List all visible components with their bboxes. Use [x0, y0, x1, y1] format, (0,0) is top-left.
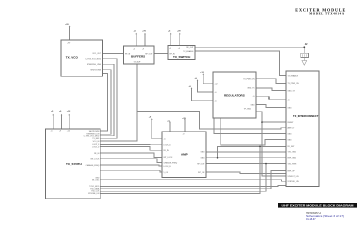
wire REGULATORS pin4 to TX_INTERCONNECT GND	[256, 105, 286, 108]
svg-text:BUFFERS: BUFFERS	[131, 55, 145, 59]
wire TX_SWITCH RF_OUT to connector J2	[195, 47, 304, 53]
wire REGULATORS pin1 to TX_INTERCONNECT TX_PWR_ON	[256, 79, 286, 84]
power tap +5V above AMP	[169, 122, 171, 132]
wire REGULATORS pin5 to TX_INTERCONNECT RESET	[256, 112, 286, 176]
svg-text:+9: +9	[142, 48, 144, 50]
svg-text:AMP_LT: AMP_LT	[288, 127, 296, 130]
power arrowheads on taps	[52, 26, 204, 123]
wire REGULATORS pin3 to TX_INTERCONNECT +5	[256, 96, 286, 100]
block TX_INTERCONNECT	[286, 71, 319, 187]
bus wire TX_SYNTH TXD_DATA	[100, 171, 286, 189]
wire TX_VCO VCO_OUT to BUFFERS RF_IN	[103, 52, 124, 54]
junction dot at J2	[303, 46, 305, 48]
svg-text:GND: GND	[201, 158, 206, 160]
svg-text:SHUTDOWN: SHUTDOWN	[90, 70, 101, 72]
svg-text:CHANGE_FREQ: CHANGE_FREQ	[164, 161, 178, 164]
power stub tap3 at REGULATORS left	[192, 89, 214, 101]
wire branch AMP GND up	[218, 146, 287, 157]
svg-text:TX_ENABLE: TX_ENABLE	[288, 74, 299, 77]
svg-text:GND: GND	[251, 104, 256, 106]
svg-text:GND: GND	[288, 139, 293, 141]
connector J2 arrow shaft	[303, 58, 305, 61]
svg-text:LOCK_B: LOCK_B	[164, 166, 172, 168]
bus wire TX_SYNTH STROBE_LIN	[100, 146, 260, 193]
bus wire TX_SYNTH NT_OSC	[100, 180, 286, 181]
svg-text:+5: +5	[288, 100, 290, 102]
svg-text:+12: +12	[215, 84, 218, 86]
wire branch to TX_INTERCONNECT RESET	[262, 121, 286, 123]
power tap +9V above BUFFERS	[144, 34, 146, 46]
svg-text:SYNTHD_LIN: SYNTHD_LIN	[288, 181, 300, 183]
svg-text:INT_LOCK: INT_LOCK	[164, 157, 174, 159]
svg-text:CHANGE_FREQ: CHANGE_FREQ	[86, 164, 100, 167]
wire TX_VCO lower pin down to TX_SYNTH	[100, 74, 107, 132]
power tap +5V above BUFFERS	[135, 34, 137, 46]
power tap above TX_VCO	[69, 27, 71, 40]
svg-text:RESET: RESET	[288, 122, 295, 124]
svg-text:LOCK_D: LOCK_D	[92, 146, 100, 148]
svg-text:LOCK_D: LOCK_D	[164, 145, 172, 147]
connector J2 body	[301, 53, 309, 57]
junction dot RESET branch	[261, 121, 263, 123]
junction dot bus TXD_CLK	[265, 163, 267, 165]
svg-text:TXD_GND: TXD_GND	[288, 152, 297, 154]
svg-text:REGULATORS: REGULATORS	[224, 94, 245, 98]
svg-text:RF_OUT: RF_OUT	[145, 53, 153, 55]
wire TX_SYNTH to AMP lower pin	[100, 170, 162, 172]
svg-text:+9: +9	[59, 131, 61, 133]
power tap feeding AMP left pin	[152, 120, 162, 139]
power tap 2 above TX_SYNTH	[61, 115, 63, 129]
svg-text:RF_IN: RF_IN	[94, 153, 100, 155]
svg-text:STEROT_LIN: STEROT_LIN	[288, 176, 300, 178]
svg-text:+5: +5	[252, 96, 254, 98]
svg-text:STEERING_LINE: STEERING_LINE	[87, 64, 102, 66]
wire TX_SYNTH to AMP INT_LOCK	[100, 153, 162, 157]
block BUFFERS	[124, 46, 155, 64]
wire TX_VCO SHUTDOWN down to TX_SYNTH	[99, 70, 111, 135]
svg-text:TX_SWITCH: TX_SWITCH	[173, 55, 190, 59]
svg-text:INT_LOCK: INT_LOCK	[91, 159, 101, 161]
svg-text:UHF EXCITER MODULE BLOCK DIAGR: UHF EXCITER MODULE BLOCK DIAGRAM	[282, 203, 354, 207]
connector J2 arrowhead	[302, 61, 307, 66]
svg-text:01-18-97: 01-18-97	[306, 218, 316, 221]
svg-text:INT_OF: INT_OF	[198, 172, 205, 174]
wire AMP GND to TX_INTERCONNECT TXD_GND	[206, 151, 286, 153]
title bar UHF EXCITER MODULE BLOCK DIAGRAM	[278, 203, 357, 208]
svg-text:RF_OUT: RF_OUT	[186, 47, 194, 49]
svg-text:TX_SYNTH: TX_SYNTH	[66, 162, 82, 166]
svg-text:TX_VCO: TX_VCO	[66, 55, 79, 59]
wire REGULATORS bottom pin2 to TX_INTERCONNECT GND	[221, 118, 286, 145]
wire TX_SYNTH to AMP RF_IN	[100, 147, 162, 151]
connector J2 hatch marks	[303, 54, 307, 56]
svg-text:+9: +9	[178, 48, 180, 50]
junction dot REGULATORS +5 wire	[268, 97, 270, 99]
bus wire TX_SYNTH TXD_CLK	[100, 164, 266, 192]
power tap 3 above TX_SYNTH	[68, 115, 70, 129]
wire BUFFERS RF_OUT to TX_SWITCH RF_IN	[154, 53, 168, 55]
wire TX_SYNTH to AMP LOCK_B	[100, 164, 162, 167]
power stub tap1 at REGULATORS left	[203, 75, 213, 84]
wire AMP GND2 to TX_INTERCONNECT REF_GND	[206, 157, 286, 159]
wire TX_VCO 5_TRX_VCO_MOD down to TX_SYNTH	[100, 59, 117, 139]
block TX_SYNTH	[45, 129, 100, 199]
svg-text:REF_GND: REF_GND	[288, 158, 297, 160]
svg-text:+12: +12	[67, 131, 70, 133]
svg-text:+5: +5	[215, 101, 217, 103]
svg-text:TXD_PWR: TXD_PWR	[288, 163, 297, 165]
svg-text:TX_PWR_ON: TX_PWR_ON	[288, 83, 300, 85]
svg-text:RF_IN: RF_IN	[164, 150, 170, 152]
wire TX_SYNTH to AMP LOCK_D	[100, 143, 162, 145]
svg-text:STROBE_LIN: STROBE_LIN	[88, 193, 100, 195]
svg-text:+9: +9	[215, 92, 217, 94]
svg-text:+9: +9	[183, 134, 185, 136]
wire AMP INT_OF to TX_INTERCONNECT RF_OUT	[206, 172, 286, 173]
block AMP	[162, 132, 206, 178]
svg-text:GND_TX: GND_TX	[247, 88, 255, 90]
power tap 1 above TX_SYNTH	[52, 115, 54, 129]
block REGULATORS	[213, 72, 256, 118]
svg-text:GND: GND	[288, 107, 293, 109]
svg-text:TX_BUF: TX_BUF	[92, 138, 100, 140]
svg-text:+5: +5	[133, 48, 135, 50]
junction dot bus STROBE	[259, 146, 261, 148]
svg-text:TX_ENABLE: TX_ENABLE	[183, 50, 194, 53]
svg-text:TP_GND: TP_GND	[244, 109, 252, 111]
svg-text:GND: GND	[288, 133, 293, 135]
wire TX_SYNTH to AMP CHANGE_FREQ	[100, 159, 162, 163]
wire REGULATORS bottom pin1 to TX_INTERCONNECT GND	[214, 118, 286, 134]
svg-text:TX_PWR_ON: TX_PWR_ON	[243, 79, 255, 81]
power tap +9V above TX_SWITCH	[179, 34, 181, 46]
wire REGULATORS pin2 to TX_INTERCONNECT GND_TX	[256, 88, 286, 91]
svg-text:GND: GND	[201, 152, 206, 154]
svg-text:+5: +5	[169, 48, 171, 50]
block TX_SWITCH	[168, 46, 195, 60]
power tap +5V above TX_SWITCH	[170, 34, 172, 46]
wire BUFFERS TX_BUF down to TX_SYNTH	[100, 64, 137, 141]
svg-text:+5: +5	[164, 139, 166, 141]
svg-text:MODEL TTX4014A: MODEL TTX4014A	[309, 12, 345, 16]
wire AMP RF_OUT to TX_INTERCONNECT TXD_PWR	[206, 163, 286, 165]
svg-text:RF_IN: RF_IN	[125, 53, 131, 55]
svg-text:GND_TX: GND_TX	[288, 90, 296, 92]
wire TX_BUF branch to TX_INTERCONNECT AMP_LT	[137, 112, 286, 130]
svg-text:TX_INTERCONNECT: TX_INTERCONNECT	[293, 114, 319, 118]
svg-text:VCO_OUT: VCO_OUT	[92, 53, 102, 55]
bus wire TX_SYNTH TCXO_MOD	[100, 185, 286, 188]
svg-text:AMP: AMP	[181, 153, 188, 157]
junction dot AMP GND branch	[217, 157, 219, 159]
wire TX_SWITCH TX_ENABLE to TX_INTERCONNECT	[195, 51, 286, 76]
svg-text:RF_DET: RF_DET	[288, 146, 296, 148]
power tap +9V above AMP	[184, 120, 186, 132]
svg-text:REF_OF: REF_OF	[288, 170, 296, 172]
wire TX_VCO STEERING_LINE down to TX_SYNTH	[100, 64, 114, 136]
svg-text:RF_IN: RF_IN	[170, 53, 176, 55]
svg-text:NT_OSC: NT_OSC	[92, 179, 100, 181]
svg-text:5_TRX_VCO_MOD: 5_TRX_VCO_MOD	[85, 59, 101, 61]
svg-text:VCO_IN: VCO_IN	[93, 141, 100, 143]
svg-text:RF_OUT: RF_OUT	[197, 163, 205, 165]
block TX_VCO	[61, 40, 103, 76]
power stub tap2 at REGULATORS left	[198, 81, 214, 93]
svg-text:+5: +5	[51, 131, 53, 133]
svg-text:TX_BUF: TX_BUF	[134, 62, 142, 64]
